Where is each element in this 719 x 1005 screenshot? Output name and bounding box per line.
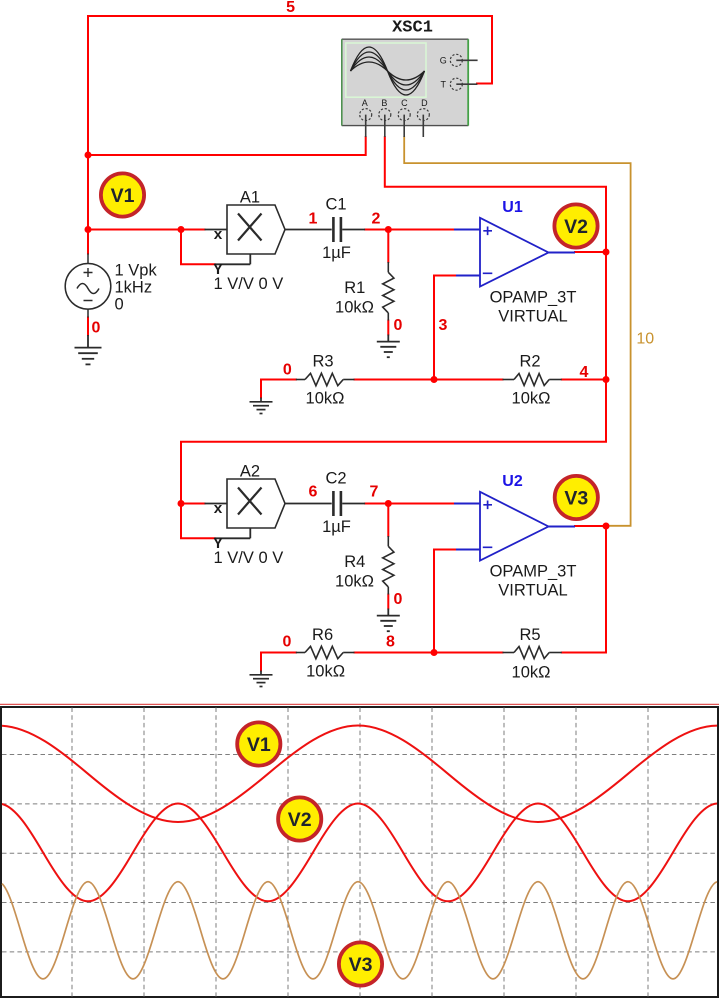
svg-text:10kΩ: 10kΩ bbox=[512, 663, 551, 681]
resistor R5 bbox=[503, 647, 562, 659]
svg-text:x: x bbox=[213, 227, 222, 244]
svg-text:3: 3 bbox=[439, 317, 448, 334]
svg-text:0: 0 bbox=[283, 634, 292, 651]
trace label V3 bbox=[339, 942, 382, 985]
trace label V1 bbox=[237, 722, 280, 765]
wire V3 node down to R5 bbox=[605, 526, 607, 653]
svg-text:R1: R1 bbox=[344, 279, 365, 297]
svg-text:1µF: 1µF bbox=[322, 244, 351, 262]
wire U1 out bbox=[575, 251, 606, 253]
svg-text:B: B bbox=[381, 98, 387, 108]
svg-text:C1: C1 bbox=[325, 196, 346, 214]
wire net8 U2- feedback bbox=[434, 550, 456, 653]
svg-text:5: 5 bbox=[286, 0, 295, 16]
ground R3 bbox=[250, 398, 273, 414]
svg-text:10kΩ: 10kΩ bbox=[335, 298, 374, 316]
wire net3 U1- feedback bbox=[434, 276, 456, 380]
svg-text:V1: V1 bbox=[111, 185, 135, 207]
wire U2 out bbox=[575, 525, 606, 527]
svg-text:R5: R5 bbox=[519, 626, 540, 644]
svg-text:1 V/V 0 V: 1 V/V 0 V bbox=[214, 275, 284, 293]
wire source bottom red tick bbox=[87, 318, 89, 336]
source labels bbox=[115, 262, 158, 314]
multiplier A2 bbox=[205, 479, 332, 538]
svg-text:U2: U2 bbox=[502, 473, 523, 490]
svg-text:VIRTUAL: VIRTUAL bbox=[498, 581, 567, 599]
svg-text:6: 6 bbox=[309, 484, 318, 501]
trace V2 bbox=[2, 804, 717, 902]
ground R4 bbox=[377, 609, 400, 632]
svg-text:V2: V2 bbox=[288, 809, 312, 831]
svg-text:R2: R2 bbox=[519, 352, 540, 370]
svg-text:x: x bbox=[213, 501, 222, 518]
wire source top bbox=[87, 230, 89, 254]
svg-text:T: T bbox=[441, 79, 447, 89]
svg-text:V1: V1 bbox=[247, 734, 271, 756]
svg-text:OPAMP_3T: OPAMP_3T bbox=[490, 563, 577, 581]
wire net4 vertical to A2 bbox=[181, 252, 606, 504]
probe V3 bbox=[555, 476, 598, 519]
svg-text:D: D bbox=[421, 98, 428, 108]
svg-text:0: 0 bbox=[92, 320, 101, 337]
svg-text:VIRTUAL: VIRTUAL bbox=[498, 307, 567, 325]
ground R1 bbox=[377, 335, 400, 358]
svg-text:8: 8 bbox=[386, 634, 395, 651]
oscilloscope XSC1 bbox=[342, 18, 478, 137]
svg-text:7: 7 bbox=[370, 484, 379, 501]
svg-text:10: 10 bbox=[636, 331, 654, 348]
svg-text:1kHz: 1kHz bbox=[115, 279, 153, 297]
wire node7 down to R4 bbox=[387, 504, 389, 537]
svg-text:A: A bbox=[362, 98, 368, 108]
scope trace window bbox=[0, 704, 719, 997]
svg-text:R4: R4 bbox=[344, 553, 365, 571]
source V1 sine bbox=[65, 254, 111, 318]
wire scope A to net bbox=[88, 137, 366, 155]
svg-text:R3: R3 bbox=[312, 352, 333, 370]
svg-text:4: 4 bbox=[580, 364, 589, 381]
scope grid bbox=[2, 708, 717, 997]
wire scope C orange net10 bbox=[404, 137, 630, 526]
multiplier A1 bbox=[205, 205, 332, 264]
capacitor C1 bbox=[333, 217, 365, 242]
svg-text:10kΩ: 10kΩ bbox=[306, 389, 345, 407]
svg-text:C: C bbox=[401, 98, 408, 108]
trace label V2 bbox=[278, 797, 321, 840]
svg-text:10kΩ: 10kΩ bbox=[512, 390, 551, 408]
svg-text:C2: C2 bbox=[325, 470, 346, 488]
wire R4 bottom red tick bbox=[387, 595, 389, 609]
svg-text:10kΩ: 10kΩ bbox=[335, 572, 374, 590]
wire left vertical V1 feed bbox=[87, 16, 89, 230]
svg-text:A2: A2 bbox=[240, 463, 260, 481]
svg-text:G: G bbox=[440, 55, 447, 65]
svg-text:V3: V3 bbox=[349, 954, 373, 976]
resistor R4 bbox=[383, 536, 394, 595]
wire A1 Y branch bbox=[181, 230, 215, 265]
resistor R2 bbox=[503, 374, 562, 386]
svg-text:0: 0 bbox=[283, 362, 292, 379]
svg-text:1µF: 1µF bbox=[322, 518, 351, 536]
wire R1 bottom red tick bbox=[387, 321, 389, 335]
wire net5 top bbox=[88, 16, 492, 84]
svg-text:10kΩ: 10kΩ bbox=[306, 662, 345, 680]
svg-text:1: 1 bbox=[309, 210, 318, 227]
svg-text:XSC1: XSC1 bbox=[392, 18, 433, 37]
svg-text:V2: V2 bbox=[564, 216, 588, 238]
trace V1 bbox=[2, 726, 717, 823]
op-amp U2 bbox=[454, 492, 575, 561]
wire main row1 bbox=[88, 229, 205, 231]
wire A2 Y branch bbox=[181, 504, 215, 539]
svg-text:1 Vpk: 1 Vpk bbox=[115, 262, 158, 280]
probe V1 bbox=[101, 173, 144, 216]
svg-text:V3: V3 bbox=[564, 487, 588, 509]
trace V3 bbox=[2, 882, 717, 979]
svg-text:0: 0 bbox=[394, 591, 403, 608]
ground R6 bbox=[250, 671, 273, 687]
svg-text:1 V/V 0 V: 1 V/V 0 V bbox=[214, 549, 284, 567]
resistor R1 bbox=[383, 262, 394, 321]
ground source bbox=[75, 335, 102, 364]
svg-text:U1: U1 bbox=[502, 199, 523, 216]
wire R6 ground stub bbox=[260, 653, 262, 671]
svg-text:R6: R6 bbox=[312, 626, 333, 644]
wire R3 ground stub bbox=[260, 380, 262, 398]
wire node2 down to R1 bbox=[387, 230, 389, 263]
resistor R3 bbox=[296, 373, 355, 385]
op-amp U1 bbox=[454, 218, 575, 287]
svg-text:0: 0 bbox=[394, 317, 403, 334]
wire row R6 R5 bbox=[261, 652, 606, 654]
svg-text:A1: A1 bbox=[240, 189, 260, 207]
wire main row2 bbox=[181, 503, 205, 505]
resistor R6 bbox=[296, 646, 355, 658]
svg-text:0: 0 bbox=[115, 296, 124, 314]
capacitor C2 bbox=[333, 491, 365, 516]
wire node7 C2 to U2+ bbox=[365, 503, 454, 505]
svg-text:OPAMP_3T: OPAMP_3T bbox=[490, 289, 577, 307]
wire scope B to U1 output bbox=[385, 137, 606, 252]
svg-text:2: 2 bbox=[372, 210, 381, 227]
probe V2 bbox=[554, 204, 597, 247]
wire node2 C1 to U1+ bbox=[365, 229, 454, 231]
wire row R3 R2 bbox=[261, 379, 606, 381]
